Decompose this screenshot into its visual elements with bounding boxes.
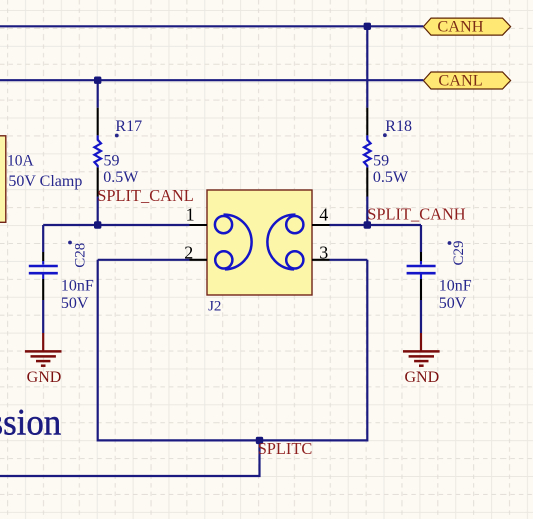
svg-text:0.5W: 0.5W	[103, 169, 139, 186]
svg-text:GND: GND	[404, 369, 439, 386]
svg-text:SPLITC: SPLITC	[258, 439, 313, 458]
svg-text:59: 59	[104, 153, 120, 170]
svg-text:10A: 10A	[7, 152, 35, 169]
svg-text:50V Clamp: 50V Clamp	[8, 173, 82, 190]
svg-text:10nF: 10nF	[61, 278, 94, 295]
svg-text:0.5W: 0.5W	[373, 169, 409, 186]
svg-text:J2: J2	[208, 299, 221, 315]
svg-text:50V: 50V	[61, 295, 89, 312]
svg-text:50V: 50V	[439, 295, 467, 312]
svg-text:CANH: CANH	[437, 16, 483, 35]
svg-text:CANL: CANL	[438, 70, 482, 89]
svg-text:R18: R18	[385, 118, 412, 135]
svg-text:59: 59	[373, 153, 389, 170]
svg-text:C28: C28	[72, 243, 88, 268]
svg-text:GND: GND	[27, 369, 62, 386]
svg-text:4: 4	[319, 204, 328, 224]
svg-text:SPLIT_CANH: SPLIT_CANH	[367, 205, 466, 224]
svg-text:1: 1	[186, 205, 195, 225]
svg-text:R17: R17	[115, 118, 142, 135]
svg-text:2: 2	[184, 242, 193, 262]
svg-text:C29: C29	[451, 240, 467, 265]
svg-text:SPLIT_CANL: SPLIT_CANL	[97, 186, 194, 205]
svg-text:3: 3	[319, 242, 328, 262]
svg-text:ssion: ssion	[0, 401, 61, 442]
svg-text:10nF: 10nF	[439, 278, 472, 295]
